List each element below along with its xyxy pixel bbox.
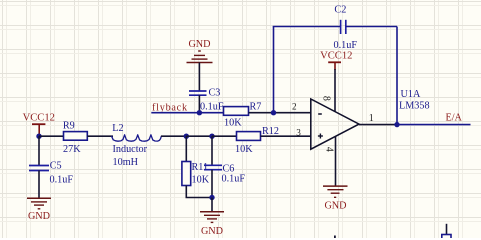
wire stub (bottom middle) — [334, 236, 336, 239]
ground (below C6) — [200, 212, 224, 237]
svg-text:0.1uF: 0.1uF — [222, 173, 246, 184]
wire output vertical — [396, 27, 398, 125]
wire VCC12 to pin 8 — [334, 69, 336, 112]
svg-text:C3: C3 — [209, 88, 221, 99]
svg-text:GND: GND — [201, 226, 223, 237]
inductor L2 — [112, 135, 162, 141]
svg-text:4: 4 — [323, 147, 334, 152]
capacitor C3 — [189, 91, 207, 95]
svg-text:10K: 10K — [192, 175, 210, 186]
svg-text:U1A: U1A — [401, 89, 421, 100]
wire output to E/A — [397, 124, 471, 126]
resistor (bottom right, partial) — [442, 235, 451, 240]
wire R9 to L2 — [87, 135, 113, 137]
wire op-amp output — [359, 124, 397, 126]
junction node B (C6 tap) — [209, 134, 214, 139]
wire C3 to flyback net — [198, 95, 200, 113]
op-amp U1A — [311, 99, 359, 149]
svg-text:R7: R7 — [250, 102, 262, 113]
wire R11 top pin — [185, 136, 187, 161]
power symbol VCC12 (left) — [23, 112, 55, 136]
svg-text:3: 3 — [296, 128, 301, 138]
junction node VCC12/R9/C5 — [36, 134, 41, 139]
wire node A to node B — [186, 135, 212, 137]
svg-text:GND: GND — [188, 39, 210, 50]
wire R11 bottom pin elbow — [186, 186, 212, 198]
svg-text:flyback: flyback — [152, 103, 188, 114]
svg-text:10K: 10K — [235, 144, 253, 155]
svg-text:10mH: 10mH — [113, 157, 139, 168]
ground (above C3, flipped) — [187, 39, 213, 63]
wire ground to C3 — [198, 63, 200, 92]
resistor R7 — [224, 107, 249, 116]
plus sign pin 3 — [318, 134, 323, 139]
svg-text:C2: C2 — [334, 5, 346, 16]
wire feedback vertical — [273, 27, 275, 113]
wire C6 bottom pin — [211, 170, 213, 198]
resistor R9 — [64, 132, 88, 141]
svg-text:27K: 27K — [63, 144, 81, 155]
svg-text:LM358: LM358 — [399, 100, 430, 111]
power symbol VCC12 (op-amp) — [320, 51, 352, 71]
svg-text:R11: R11 — [192, 162, 209, 173]
wire C5 to ground — [38, 171, 40, 199]
capacitor C6 — [204, 165, 222, 169]
wire flyback net — [151, 112, 223, 114]
ground (op-amp) — [323, 186, 348, 212]
junction node feedback/pin2 — [271, 110, 276, 115]
svg-text:10K: 10K — [224, 117, 242, 128]
svg-text:L2: L2 — [112, 123, 123, 134]
wire feedback top to C2 — [273, 26, 341, 28]
ground (below C5) — [27, 198, 51, 222]
svg-text:R9: R9 — [63, 121, 75, 132]
wire L2 to node A — [161, 135, 186, 137]
wire pin (bottom right) — [446, 224, 448, 235]
svg-text:GND: GND — [28, 211, 50, 222]
svg-text:VCC12: VCC12 — [23, 112, 55, 123]
junction node R11/C6/GND — [209, 195, 214, 200]
junction node flyback/C3 — [197, 110, 202, 115]
minus sign pin 2 — [318, 113, 322, 115]
svg-text:0.1uF: 0.1uF — [200, 102, 224, 113]
wire junction to ground — [211, 198, 213, 212]
svg-text:0.1uF: 0.1uF — [50, 175, 74, 186]
svg-text:GND: GND — [324, 201, 346, 212]
svg-text:E/A: E/A — [446, 113, 463, 124]
svg-text:Inductor: Inductor — [113, 144, 148, 155]
resistor R12 — [237, 132, 261, 141]
svg-text:R12: R12 — [262, 126, 279, 137]
svg-text:0.1uF: 0.1uF — [334, 40, 358, 51]
wire R12 to op-amp pin 3 — [261, 135, 312, 137]
svg-text:VCC12: VCC12 — [320, 51, 352, 62]
junction node output/C2 — [394, 122, 399, 127]
resistor R11 — [182, 162, 191, 186]
wire C2 to output vertical — [346, 26, 397, 28]
junction node A (R11 tap) — [184, 134, 189, 139]
wire pin 4 to ground — [335, 136, 337, 186]
capacitor C2 — [341, 20, 346, 34]
wire VCC junction to R9 — [39, 135, 64, 137]
svg-text:C5: C5 — [50, 160, 62, 171]
wire node B to R12 — [212, 135, 237, 137]
wire R7 to op-amp pin 2 — [249, 112, 312, 114]
svg-text:2: 2 — [292, 101, 297, 111]
svg-text:8: 8 — [320, 96, 331, 101]
svg-text:1: 1 — [369, 113, 374, 124]
capacitor C5 — [29, 136, 49, 170]
wire C6 top pin — [211, 136, 213, 165]
